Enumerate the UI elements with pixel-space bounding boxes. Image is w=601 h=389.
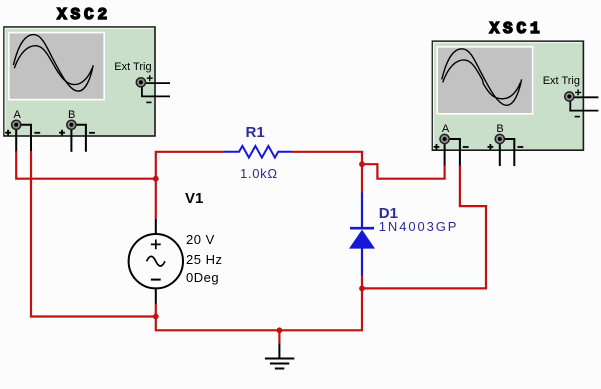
V1 top lead — [155, 219, 157, 236]
svg-text:25 Hz: 25 Hz — [186, 252, 222, 267]
wire XSC1 A+ to node D1 top — [361, 164, 445, 179]
wire XSC2 A- to node left-rail lower — [31, 151, 157, 317]
XSC2 channel B connector — [67, 120, 76, 129]
XSC1 waveform trace 2 — [443, 60, 521, 99]
XSC2 display — [8, 32, 105, 101]
V1 bottom lead — [155, 287, 157, 304]
svg-text:A: A — [14, 109, 22, 121]
XSC2 channel B minus pin stub — [76, 125, 86, 152]
ground bar 3 — [275, 368, 284, 370]
svg-text:Ext Trig: Ext Trig — [543, 75, 580, 87]
voltage source V1 — [129, 219, 183, 304]
wire bottom rail — [156, 275, 362, 330]
XSC2 Ext Trig connector — [136, 78, 145, 87]
ground — [265, 330, 294, 368]
svg-text:V1: V1 — [185, 190, 203, 207]
wire XSC1 A- to node D1 bottom — [361, 166, 486, 289]
V1 minus mark — [151, 279, 161, 281]
XSC2 channel A pin stub — [15, 129, 17, 152]
XSC2 body — [4, 27, 155, 136]
svg-text:A: A — [442, 123, 450, 135]
oscilloscope XSC1 — [432, 20, 598, 166]
wire top rail left segment — [155, 151, 224, 219]
XSC2 channel B plus mark — [59, 130, 65, 136]
XSC1 Ext Trig pin + line — [574, 96, 598, 98]
V1 plus mark — [151, 240, 161, 250]
XSC2 waveform trace 2 — [14, 46, 92, 85]
D1 cathode bar — [350, 227, 374, 230]
junction node D1 bottom — [359, 286, 365, 292]
V1 circle — [129, 234, 183, 288]
ground stem black — [278, 343, 280, 357]
XSC1 channel B minus pin stub — [504, 139, 514, 166]
ground bar 1 — [265, 358, 294, 360]
XSC1 channel A plus mark — [434, 144, 440, 150]
svg-text:1N4003GP: 1N4003GP — [379, 219, 459, 234]
ground stem red — [278, 330, 280, 343]
XSC1 channel A connector — [440, 134, 449, 143]
XSC2 channel A plus mark — [5, 130, 11, 136]
svg-text:0Deg: 0Deg — [186, 270, 219, 285]
svg-text:XSC1: XSC1 — [490, 20, 544, 38]
XSC1 channel A minus mark — [463, 146, 469, 148]
diode D1 — [349, 193, 375, 276]
XSC1 waveform trace 1 — [442, 49, 522, 106]
svg-text:1.0kΩ: 1.0kΩ — [240, 166, 278, 181]
XSC2 channel B pin stub — [70, 129, 72, 152]
XSC2 channel A minus pin stub — [21, 125, 32, 152]
XSC1 bevel highlight — [434, 43, 583, 149]
XSC1 body — [432, 41, 583, 150]
svg-text:B: B — [496, 123, 503, 135]
XSC1 Ext Trig connector — [565, 92, 574, 101]
XSC1 Ext Trig plus mark — [575, 89, 581, 95]
resistor R1 — [224, 146, 292, 158]
svg-text:R1: R1 — [246, 124, 265, 141]
XSC1 channel A pin stub — [444, 143, 446, 166]
D1 anode triangle — [349, 230, 375, 249]
junction node ground — [277, 327, 283, 333]
XSC1 channel B connector — [495, 134, 504, 143]
XSC2 channel B minus mark — [89, 132, 95, 134]
XSC1 Ext Trig pin - line — [570, 101, 598, 111]
XSC2 Ext Trig pin - line — [142, 87, 170, 97]
XSC2 channel A minus mark — [34, 132, 40, 134]
svg-text:B: B — [68, 109, 75, 121]
XSC1 display — [436, 46, 533, 115]
wire XSC2 A+ to node left-rail upper — [16, 151, 156, 179]
XSC2 waveform trace 1 — [13, 35, 93, 92]
XSC2 Ext Trig pin + line — [146, 82, 170, 84]
oscilloscope XSC2 — [4, 6, 170, 152]
V1 sine mark — [147, 256, 165, 266]
ground bar 2 — [270, 363, 289, 365]
XSC1 channel B minus mark — [518, 146, 524, 148]
junction node D1 top — [359, 161, 365, 167]
svg-text:XSC2: XSC2 — [57, 6, 111, 24]
XSC2 channel A connector — [12, 120, 21, 129]
D1 top lead — [361, 193, 363, 228]
XSC1 Ext Trig minus mark — [575, 116, 580, 118]
XSC1 channel B plus mark — [488, 144, 494, 150]
XSC1 channel A minus pin stub — [449, 139, 460, 166]
svg-text:20 V: 20 V — [186, 232, 215, 247]
svg-text:Ext Trig: Ext Trig — [114, 61, 151, 73]
XSC2 Ext Trig plus mark — [147, 75, 153, 81]
XSC2 bevel highlight — [5, 28, 154, 134]
junction node left-rail lower — [153, 314, 159, 320]
XSC2 Ext Trig minus mark — [146, 101, 151, 103]
wire top rail right segment to D1 — [292, 151, 362, 194]
XSC1 channel B pin stub — [499, 143, 501, 166]
junction node left-rail upper — [153, 176, 159, 182]
D1 bottom lead — [361, 248, 363, 276]
